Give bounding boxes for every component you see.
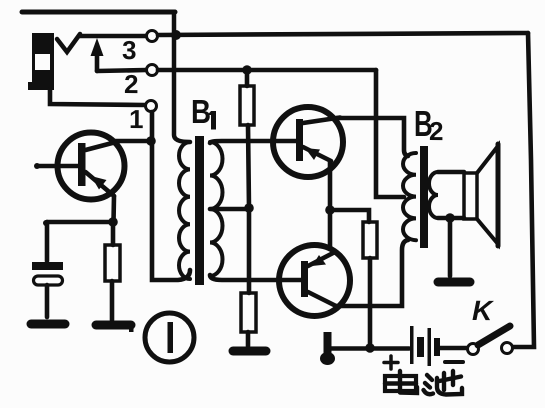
node emitter junction	[325, 205, 335, 215]
jack switch contact V	[57, 34, 80, 52]
wire top bus	[22, 10, 175, 15]
resistor R3	[241, 293, 256, 332]
ground below C1	[31, 320, 65, 329]
label B1	[191, 94, 216, 131]
resistor R2	[240, 86, 254, 125]
label B2	[414, 104, 444, 146]
node Q1 collector junction	[146, 136, 156, 146]
node corner dot	[43, 220, 49, 226]
terminal 1	[146, 101, 157, 112]
right border wire (terminal 3 to switch)	[513, 33, 534, 347]
wire Q2 emitter down	[328, 161, 333, 210]
wire terminal 1 down to B1 primary bottom	[152, 112, 190, 280]
transformer B1 primary winding	[179, 142, 190, 279]
wire B1 secondary bottom to Q3 base	[210, 275, 301, 280]
node junction on line 2	[242, 65, 252, 75]
wire R4 bottom lead	[368, 258, 373, 348]
wire speaker junction to ground	[448, 218, 453, 276]
wire jack sleeve to terminal 1	[50, 89, 145, 105]
svg-text:1: 1	[129, 104, 144, 134]
svg-text:2: 2	[429, 116, 444, 146]
wire terminal-2 line left	[97, 70, 146, 71]
ground below R1	[96, 321, 131, 330]
ground below speaker	[438, 278, 470, 287]
node junction on line 3	[171, 30, 181, 40]
transistor Q2	[273, 107, 343, 177]
svg-text:2: 2	[124, 69, 139, 99]
wire bottom rail left	[330, 346, 409, 351]
figure number circle 1	[145, 313, 194, 362]
wire terminal-2 line right	[158, 68, 376, 73]
resistor R4	[363, 222, 377, 258]
transformer B2 primary winding	[403, 153, 416, 240]
node R4 rail junction	[365, 343, 375, 353]
wire terminal-3 line right to right border	[158, 33, 528, 35]
terminal 3	[147, 31, 158, 42]
wire R1 bottom lead	[110, 281, 115, 320]
ground below R3	[233, 347, 266, 356]
wire drop to B2 center tap	[376, 70, 404, 197]
stray mark	[129, 322, 134, 332]
transformer B2 secondary winding	[429, 172, 438, 218]
terminal 2	[147, 65, 158, 76]
switch K	[468, 344, 479, 355]
wire R1 top lead	[111, 222, 116, 245]
wire Q1 emitter node horizontal	[47, 220, 113, 225]
capacitor C1 (electrolytic)	[32, 262, 63, 317]
wire B2 secondary top to speaker	[438, 170, 464, 175]
transformer B1 secondary winding	[210, 142, 222, 276]
node speaker bottom junction	[445, 213, 455, 223]
svg-text:B: B	[191, 94, 211, 131]
resistor R1	[105, 245, 120, 281]
battery - label	[445, 360, 463, 364]
wire emitter node to R4	[330, 210, 369, 222]
svg-text:K: K	[472, 295, 494, 326]
svg-text:3: 3	[122, 35, 137, 65]
plug insertion arrow	[95, 50, 100, 71]
node Q1 emitter junction	[108, 217, 118, 227]
transformer B2 core	[420, 146, 428, 248]
wire R2 top lead	[245, 70, 250, 86]
wire terminal-3 line left	[80, 34, 146, 39]
wire Q1 collector to node	[114, 139, 147, 144]
wire R2 bottom lead	[248, 125, 249, 208]
label battery 电池	[385, 371, 462, 395]
wire B2 secondary bottom to speaker	[438, 216, 464, 221]
wire battery to switch	[440, 346, 467, 351]
wire R3 bottom lead	[246, 332, 251, 346]
speaker LS	[464, 144, 498, 246]
wire R3 top lead	[247, 208, 252, 293]
jack J (earphone socket)	[28, 33, 54, 90]
battery + label	[384, 356, 398, 369]
battery holder post	[324, 332, 332, 356]
transistor Q1	[34, 133, 125, 223]
wire to capacitor C1	[45, 222, 50, 261]
transformer B1 core	[195, 136, 204, 285]
wire Q2 collector to B2 primary top	[337, 118, 408, 156]
wire vertical from top bus to B1 primary top	[174, 12, 190, 142]
wire B1 secondary top to Q2 base	[210, 141, 296, 143]
transistor Q3	[279, 245, 350, 316]
battery GB plates	[410, 326, 440, 366]
wire Q3 collector to B2 primary bottom	[336, 240, 408, 306]
wire emitter node down to Q3 emitter	[328, 210, 333, 249]
node B1 center tap junction	[244, 203, 254, 213]
wire B1 center tap	[210, 207, 249, 212]
